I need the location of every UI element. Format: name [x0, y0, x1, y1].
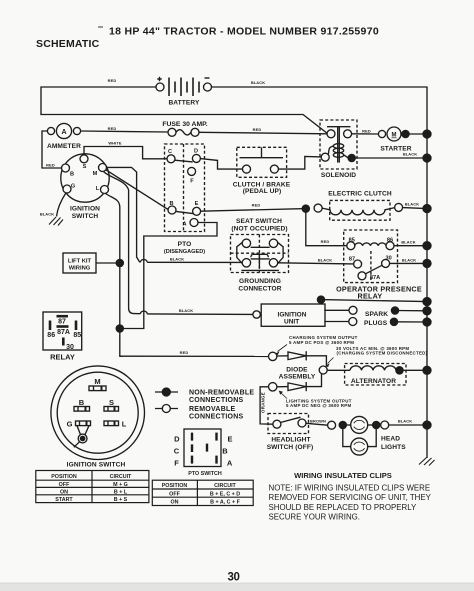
wire ignition unit top to rail	[321, 300, 427, 305]
svg-text:LIFT KIT: LIFT KIT	[68, 259, 92, 265]
legend removable	[155, 408, 178, 410]
ground right rail	[419, 458, 435, 466]
svg-text:SHOULD BE REPLACED TO PROPERLY: SHOULD BE REPLACED TO PROPERLY	[269, 503, 418, 512]
svg-text:C: C	[168, 149, 172, 155]
wire L down to junction	[106, 194, 124, 357]
svg-text:(PEDAL UP): (PEDAL UP)	[243, 188, 282, 195]
svg-text:POSITION: POSITION	[51, 474, 77, 480]
wire lift kit to junction	[96, 262, 116, 264]
ignition switch table	[36, 471, 149, 503]
svg-text:BLACK: BLACK	[405, 202, 419, 207]
ignition switch SW1	[61, 154, 109, 202]
wire PTO blade C-D	[175, 160, 193, 162]
svg-text:M: M	[392, 132, 397, 138]
wire junction to charging circle (red)	[120, 355, 269, 357]
svg-text:B + L: B + L	[114, 489, 128, 495]
svg-text:SCHEMATIC: SCHEMATIC	[36, 38, 100, 50]
wire M to seat switch (black)	[107, 167, 141, 262]
wire battery positive to left rail	[41, 87, 328, 134]
svg-text:POSITION: POSITION	[162, 483, 188, 489]
wire orange to headlight switch	[260, 387, 273, 424]
lift kit wiring box	[63, 253, 96, 273]
battery B1	[156, 77, 212, 96]
wire relay 30 to rail	[390, 262, 427, 264]
svg-text:WIRING INSULATED CLIPS: WIRING INSULATED CLIPS	[294, 471, 392, 480]
svg-text:85: 85	[349, 238, 355, 244]
wire M to PTO B	[106, 170, 168, 210]
node feed dot	[302, 205, 309, 212]
svg-text:RED: RED	[252, 203, 261, 208]
svg-text:SWITCH (OFF): SWITCH (OFF)	[267, 444, 314, 451]
svg-text:18 HP 44" TRACTOR - MODEL NUMB: 18 HP 44" TRACTOR - MODEL NUMBER 917.255…	[109, 26, 379, 38]
wire PTO A to lower junction	[123, 223, 217, 329]
svg-text:ORANGE: ORANGE	[261, 392, 266, 413]
svg-text:BLACK: BLACK	[179, 308, 193, 313]
svg-text:OFF: OFF	[169, 492, 180, 498]
page bottom edge strip	[0, 583, 474, 591]
svg-text:DIODE: DIODE	[286, 366, 308, 373]
headlight lamp LP2	[343, 429, 351, 447]
operator presence relay K2	[344, 230, 398, 283]
svg-text:S: S	[83, 164, 87, 170]
wire clutch/brake to solenoid	[278, 157, 321, 170]
diode D2	[269, 383, 277, 391]
svg-text:REMOVABLE: REMOVABLE	[189, 406, 236, 413]
wire solenoid black to rail	[355, 157, 427, 159]
svg-text:RELAY: RELAY	[358, 292, 383, 301]
alternator G1	[345, 364, 406, 386]
svg-text:BLACK: BLACK	[401, 240, 415, 245]
wire white: S to PTO C	[84, 147, 167, 159]
svg-text:CONNECTOR: CONNECTOR	[238, 286, 281, 293]
svg-text:G: G	[71, 184, 75, 190]
svg-text:RED: RED	[253, 127, 262, 132]
svg-text:BLACK: BLACK	[398, 418, 412, 423]
wire fuse to solenoid	[199, 132, 327, 134]
wire ammeter to fuse	[81, 131, 168, 132]
spark plugs P1 P2	[324, 309, 349, 311]
wire seat switch to relay 87 (black)	[278, 263, 354, 264]
svg-text:GROUNDING: GROUNDING	[239, 278, 281, 285]
node junction dot upper	[116, 259, 123, 266]
svg-text:NOTE: IF WIRING INSULATED CLIP: NOTE: IF WIRING INSULATED CLIPS WERE	[269, 484, 431, 493]
wire PTO E to clutch feed	[201, 209, 302, 212]
svg-text:87A: 87A	[370, 275, 380, 281]
svg-text:B: B	[70, 172, 74, 178]
svg-text:RED: RED	[321, 239, 330, 244]
svg-text:L: L	[122, 420, 127, 429]
ground	[49, 217, 63, 226]
svg-text:BROWN: BROWN	[310, 419, 326, 424]
wire G to ground	[57, 193, 67, 217]
grounding connector J1	[237, 242, 283, 271]
svg-text:30: 30	[66, 344, 74, 351]
svg-text:PTO: PTO	[178, 241, 192, 248]
svg-text:BLACK: BLACK	[403, 152, 417, 157]
wire M to ignition unit (black)	[104, 172, 141, 314]
svg-text:RED: RED	[180, 350, 189, 355]
wire battery negative to right rail	[212, 87, 428, 458]
svg-text:F: F	[174, 459, 179, 468]
svg-text:BLACK: BLACK	[318, 258, 332, 263]
svg-text:B + A, C + F: B + A, C + F	[210, 500, 241, 506]
svg-text:F: F	[190, 179, 194, 185]
wire hop	[140, 259, 147, 262]
headlight lamp LP1	[343, 424, 351, 426]
wire brown	[306, 423, 328, 425]
svg-text:AMMETER: AMMETER	[47, 143, 81, 150]
svg-text:CONNECTIONS: CONNECTIONS	[189, 397, 244, 404]
svg-text:M: M	[93, 171, 98, 177]
junction circle	[319, 366, 327, 374]
PTO switch SW2	[165, 144, 205, 232]
svg-text:IGNITION SWITCH: IGNITION SWITCH	[67, 462, 126, 469]
fuse F1 30A	[168, 128, 199, 136]
svg-text:87: 87	[58, 319, 66, 326]
svg-text:5 AMP DC NEG @ 3600 RPM: 5 AMP DC NEG @ 3600 RPM	[286, 403, 351, 408]
svg-text:B + S: B + S	[114, 497, 128, 503]
svg-text:LIGHTS: LIGHTS	[381, 444, 406, 451]
svg-text:FUSE 30 AMP.: FUSE 30 AMP.	[162, 121, 207, 128]
relay pin diagram K3	[43, 312, 82, 350]
starter M1	[378, 127, 401, 141]
clutch/brake switch SW3	[237, 147, 287, 177]
wire ammeter left to ignition switch B	[42, 131, 62, 168]
diode D1	[277, 355, 288, 357]
svg-text:D: D	[174, 435, 180, 444]
svg-text:BLACK: BLACK	[251, 80, 265, 85]
svg-text:86: 86	[387, 238, 393, 244]
headlight switch SW5	[268, 414, 309, 434]
wire solenoid to starter	[352, 133, 379, 135]
svg-text:C: C	[174, 447, 180, 456]
wire relay blade 87A-30	[366, 265, 382, 274]
svg-text:B: B	[222, 447, 228, 456]
svg-text:SWITCH: SWITCH	[72, 213, 99, 220]
svg-text:BLACK: BLACK	[170, 257, 184, 262]
wire hop	[140, 311, 147, 314]
svg-text:M + G: M + G	[113, 482, 128, 488]
svg-text:ON: ON	[170, 500, 178, 506]
svg-text:REMOVED FOR SERVICING OF UNIT,: REMOVED FOR SERVICING OF UNIT, THEY	[269, 493, 432, 502]
solenoid K1	[320, 120, 357, 169]
svg-text:PTO SWITCH: PTO SWITCH	[188, 471, 222, 477]
wire PTO D to clutch/brake	[200, 159, 242, 170]
svg-text:UNIT: UNIT	[284, 318, 299, 325]
svg-text:(CHARGING SYSTEM DISCONNECTED): (CHARGING SYSTEM DISCONNECTED)	[337, 351, 428, 356]
svg-text:START: START	[55, 497, 73, 503]
charging output circle	[269, 352, 277, 360]
svg-text:RED: RED	[108, 126, 117, 131]
svg-text:IGNITION: IGNITION	[70, 206, 100, 213]
svg-text:85: 85	[73, 332, 81, 339]
svg-text:ON: ON	[60, 489, 68, 495]
svg-text:S: S	[109, 398, 114, 407]
svg-text:D: D	[194, 149, 198, 155]
svg-text:87: 87	[349, 257, 355, 263]
svg-text:SEAT SWITCH: SEAT SWITCH	[236, 218, 282, 225]
svg-text:(NOT OCCUPIED): (NOT OCCUPIED)	[231, 226, 287, 233]
svg-text:87A: 87A	[57, 329, 70, 336]
svg-text:M: M	[94, 377, 100, 386]
svg-text:RED: RED	[362, 128, 371, 133]
svg-text:86: 86	[47, 332, 55, 339]
svg-text:A: A	[61, 129, 66, 136]
svg-text:BATTERY: BATTERY	[168, 100, 200, 107]
electric clutch L1	[314, 204, 322, 212]
svg-text:HEAD: HEAD	[381, 436, 400, 443]
ammeter A1	[47, 123, 80, 138]
svg-text:ALTERNATOR: ALTERNATOR	[351, 378, 396, 385]
svg-text:CONNECTIONS: CONNECTIONS	[189, 414, 244, 421]
svg-text:SPARK: SPARK	[365, 311, 388, 318]
svg-text:ELECTRIC CLUTCH: ELECTRIC CLUTCH	[328, 191, 392, 198]
svg-text:30: 30	[228, 571, 240, 583]
node junction dot lower	[116, 325, 123, 332]
svg-text:OFF: OFF	[59, 482, 70, 488]
svg-text:BLACK: BLACK	[40, 212, 54, 217]
svg-text:HEADLIGHT: HEADLIGHT	[271, 437, 310, 444]
svg-text:B + E, C + D: B + E, C + D	[210, 492, 240, 498]
svg-text:L: L	[96, 186, 100, 192]
svg-text:E: E	[227, 435, 232, 444]
svg-text:PLUGS: PLUGS	[364, 320, 388, 327]
svg-text:RELAY: RELAY	[50, 353, 75, 362]
svg-text:B: B	[169, 201, 173, 207]
wire PTO blade B-E	[176, 211, 193, 213]
key slot	[77, 426, 81, 435]
ignition switch face	[51, 366, 145, 460]
svg-text:NON-REMOVABLE: NON-REMOVABLE	[189, 389, 254, 396]
svg-text:G: G	[67, 420, 73, 429]
svg-text:SECURE YOUR WIRING.: SECURE YOUR WIRING.	[269, 513, 360, 522]
wire relay 86 to rail	[394, 245, 427, 247]
svg-text:ASSEMBLY: ASSEMBLY	[279, 374, 316, 381]
svg-text:WHITE: WHITE	[108, 141, 122, 146]
PTO connector face	[184, 429, 221, 467]
svg-text:WIRING: WIRING	[69, 266, 91, 272]
svg-text:5 AMP DC POS @ 3600 RPM: 5 AMP DC POS @ 3600 RPM	[289, 340, 354, 345]
svg-text:BLACK: BLACK	[402, 257, 416, 262]
svg-text:A: A	[227, 459, 233, 468]
svg-text:CIRCUIT: CIRCUIT	[214, 483, 236, 489]
svg-text:A: A	[182, 222, 186, 228]
svg-text:CIRCUIT: CIRCUIT	[110, 474, 132, 480]
svg-text:B: B	[79, 398, 85, 407]
legend non-removable	[155, 391, 178, 393]
svg-text:(DISENGAGED): (DISENGAGED)	[164, 249, 205, 255]
svg-text:SOLENOID: SOLENOID	[321, 172, 356, 179]
svg-text:RED: RED	[46, 163, 55, 168]
svg-text:RED: RED	[108, 78, 117, 83]
ignition unit U1	[261, 304, 325, 326]
svg-text:30: 30	[385, 256, 391, 262]
svg-text:E: E	[195, 201, 199, 207]
wire feed down to relay 85 (red)	[306, 212, 347, 246]
